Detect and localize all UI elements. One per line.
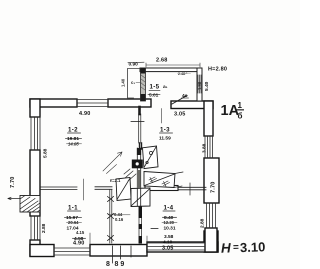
window bottom wall left xyxy=(54,248,90,255)
svg-text:a₁: a₁ xyxy=(163,85,168,90)
svg-text:2.88: 2.88 xyxy=(200,218,206,228)
svg-text:1.98: 1.98 xyxy=(197,81,202,90)
svg-text:3.05: 3.05 xyxy=(174,112,186,118)
window left wall lower xyxy=(31,216,40,240)
cleanout door black square with dot xyxy=(132,160,143,169)
svg-text:=: = xyxy=(233,242,239,253)
window extension lines bottom xyxy=(90,233,147,245)
arrow tick left xyxy=(8,197,20,199)
svg-text:1-5: 1-5 xyxy=(150,84,160,91)
top wall left segment xyxy=(30,99,77,107)
bottom wall right block xyxy=(147,242,218,252)
annex right wall window xyxy=(198,75,201,93)
svg-text:5.88: 5.88 xyxy=(43,148,49,158)
left wall lower corner segment xyxy=(30,240,40,256)
svg-text:0.16: 0.16 xyxy=(115,217,124,222)
stove C (below center) xyxy=(131,188,150,207)
extension line at door xyxy=(161,109,163,124)
svg-text:1.40: 1.40 xyxy=(121,78,126,87)
leader scribble to flue xyxy=(103,152,122,174)
hatch scribbles left of flue xyxy=(124,169,136,181)
partition between 1-2 and 1-3 xyxy=(139,107,142,149)
annex top wall xyxy=(140,68,202,101)
svg-text:ℓ=2.1: ℓ=2.1 xyxy=(110,178,121,183)
svg-text:H: H xyxy=(221,240,232,255)
door dash in partition xyxy=(131,121,144,123)
inventory marks under bottom wall xyxy=(113,246,132,263)
svg-text:8: 8 xyxy=(106,261,110,268)
door swing annex to 1-3 xyxy=(172,96,187,105)
window left wall upper xyxy=(31,117,40,150)
svg-text:10.31: 10.31 xyxy=(164,226,176,232)
stove D (room 1-3 upper) xyxy=(143,146,159,169)
porch outline xyxy=(128,69,141,99)
extension line at door x83 xyxy=(83,179,85,200)
H=3.10 handwritten xyxy=(221,239,266,256)
right wall mid segment xyxy=(204,158,219,203)
bottom wall mid block xyxy=(90,245,147,257)
svg-text:4.15: 4.15 xyxy=(76,230,85,235)
partition corridor / 1-4 with posts xyxy=(139,206,142,243)
svg-text:11.59: 11.59 xyxy=(159,136,171,142)
svg-text:8 9: 8 9 xyxy=(115,261,125,268)
annex left wall hatched xyxy=(141,68,146,101)
top wall mid segment xyxy=(108,99,151,107)
window bottom wall right xyxy=(147,243,204,250)
extension tick at x190 xyxy=(189,183,191,195)
annex right wall xyxy=(197,68,202,101)
left wall upper segment xyxy=(30,99,40,117)
interior wall between upper and lower rooms xyxy=(40,187,206,190)
thick ledge under stove E xyxy=(145,186,178,191)
svg-text:3.58: 3.58 xyxy=(164,234,174,240)
dimension line under 2.68 xyxy=(146,63,200,67)
top wall right segment xyxy=(171,101,213,109)
svg-text:1-1: 1-1 xyxy=(68,205,78,212)
chimney hatched on left wall xyxy=(20,196,40,213)
big handwritten index 1A 1/b xyxy=(221,101,245,121)
svg-text:5.01: 5.01 xyxy=(149,93,159,99)
window right wall upper xyxy=(205,136,213,158)
window right wall lower xyxy=(207,203,216,228)
stove E (room 1-3 lower wide) xyxy=(144,172,183,188)
door dash 1-4 xyxy=(151,228,158,230)
svg-text:1-3: 1-3 xyxy=(160,127,170,134)
window top wall xyxy=(77,99,108,106)
svg-text:2.68: 2.68 xyxy=(156,58,168,64)
svg-text:5.40: 5.40 xyxy=(204,81,210,91)
svg-text:б: б xyxy=(238,112,243,121)
left wall mid segment xyxy=(30,150,40,216)
svg-text:4.90: 4.90 xyxy=(79,111,91,117)
wooden partition with X marks (1-1 / corridor) xyxy=(108,190,114,243)
svg-text:1: 1 xyxy=(238,101,243,110)
svg-text:4.90: 4.90 xyxy=(73,241,85,247)
svg-text:1-2: 1-2 xyxy=(68,127,78,134)
svg-text:2.88: 2.88 xyxy=(41,223,47,233)
svg-text:2.48·¹: 2.48·¹ xyxy=(178,72,188,76)
main building outer walls xyxy=(30,99,219,257)
right wall top segment xyxy=(204,101,213,136)
svg-text:с₁: с₁ xyxy=(131,80,135,85)
svg-text:3.10: 3.10 xyxy=(240,239,266,255)
stove B (left, over wall) xyxy=(110,178,131,201)
right wall bottom segment xyxy=(205,228,217,252)
bottom wall left corner block xyxy=(30,245,54,257)
svg-text:3.88: 3.88 xyxy=(202,143,208,153)
svg-text:7.70: 7.70 xyxy=(10,176,16,188)
bottom wall right corner block xyxy=(204,231,218,252)
flue wall between stoves xyxy=(137,148,140,206)
svg-text:3.05: 3.05 xyxy=(162,246,174,252)
svg-text:H=2.80: H=2.80 xyxy=(208,67,227,73)
svg-text:1-4: 1-4 xyxy=(164,205,174,212)
svg-text:7.70: 7.70 xyxy=(211,181,217,193)
